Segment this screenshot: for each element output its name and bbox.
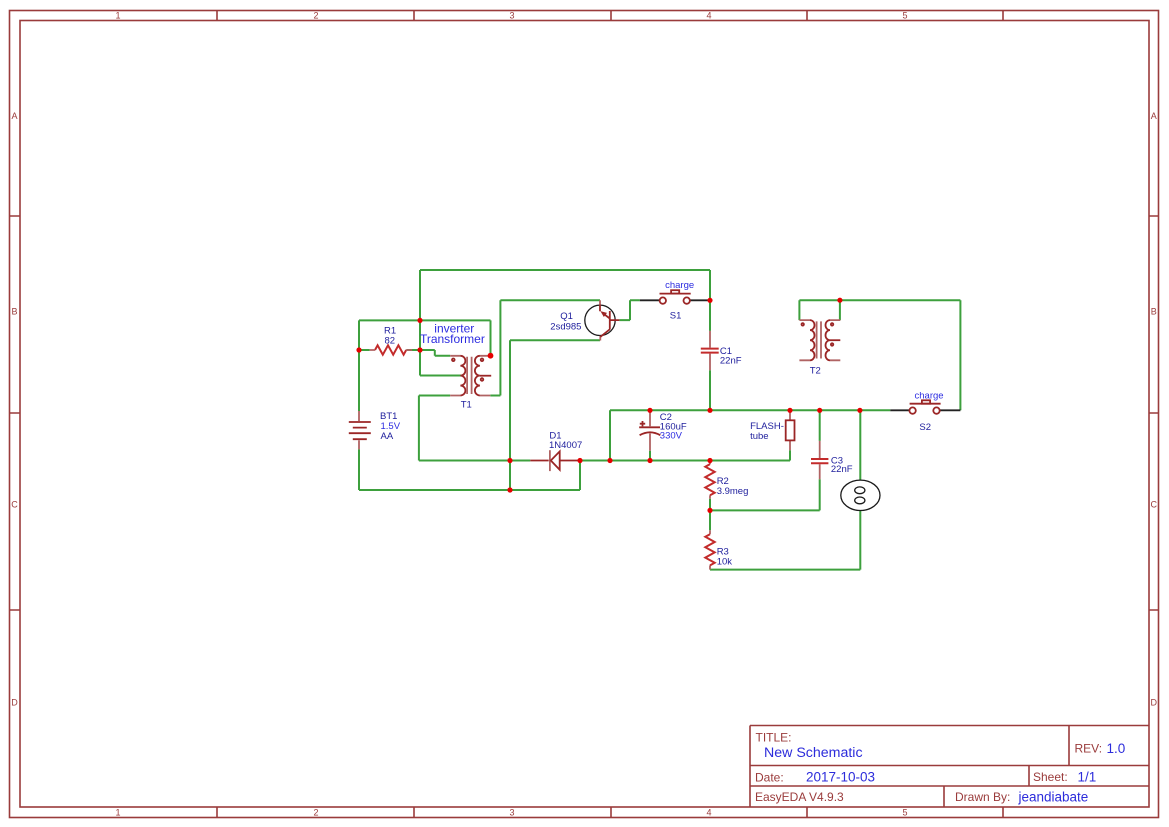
svg-text:1: 1 <box>115 807 120 817</box>
svg-text:3.9meg: 3.9meg <box>717 486 749 497</box>
svg-text:D: D <box>11 698 18 708</box>
svg-text:jeandiabate: jeandiabate <box>1018 789 1089 804</box>
svg-text:TITLE:: TITLE: <box>756 731 792 745</box>
svg-text:5: 5 <box>902 807 907 817</box>
svg-text:1/1: 1/1 <box>1078 770 1097 785</box>
svg-text:330V: 330V <box>660 431 683 442</box>
svg-text:New Schematic: New Schematic <box>764 745 863 761</box>
svg-text:1N4007: 1N4007 <box>549 440 582 451</box>
svg-text:4: 4 <box>706 11 711 21</box>
svg-text:T2: T2 <box>810 365 821 376</box>
svg-text:Transformer: Transformer <box>420 332 485 346</box>
svg-text:82: 82 <box>385 336 396 347</box>
svg-text:EasyEDA V4.9.3: EasyEDA V4.9.3 <box>755 790 844 804</box>
svg-text:C: C <box>1151 500 1158 510</box>
svg-text:Q1: Q1 <box>560 311 573 322</box>
svg-text:3: 3 <box>509 11 514 21</box>
svg-text:C: C <box>11 500 18 510</box>
svg-text:2: 2 <box>313 807 318 817</box>
svg-text:22nF: 22nF <box>720 356 742 367</box>
svg-text:S1: S1 <box>670 310 682 321</box>
svg-text:Date:: Date: <box>755 770 784 784</box>
svg-text:2sd985: 2sd985 <box>550 322 581 333</box>
svg-text:1: 1 <box>115 11 120 21</box>
svg-text:1.0: 1.0 <box>1107 741 1126 756</box>
svg-text:Drawn By:: Drawn By: <box>955 790 1010 804</box>
svg-text:10k: 10k <box>717 557 733 568</box>
svg-text:tube: tube <box>750 431 769 442</box>
svg-text:22nF: 22nF <box>831 464 853 475</box>
svg-text:A: A <box>1151 111 1157 121</box>
svg-text:B: B <box>11 307 17 317</box>
svg-text:4: 4 <box>706 807 711 817</box>
svg-text:Sheet:: Sheet: <box>1033 770 1068 784</box>
svg-text:charge: charge <box>665 280 694 291</box>
svg-text:2017-10-03: 2017-10-03 <box>806 770 875 785</box>
svg-text:2: 2 <box>313 11 318 21</box>
svg-text:B: B <box>1151 307 1157 317</box>
svg-text:REV:: REV: <box>1075 742 1103 756</box>
svg-text:5: 5 <box>902 11 907 21</box>
svg-text:3: 3 <box>509 807 514 817</box>
svg-text:AA: AA <box>381 431 394 442</box>
svg-text:1.5V: 1.5V <box>381 421 401 432</box>
svg-text:A: A <box>11 111 17 121</box>
svg-text:S2: S2 <box>919 422 931 433</box>
svg-text:D: D <box>1151 698 1158 708</box>
svg-text:charge: charge <box>915 390 944 401</box>
svg-text:T1: T1 <box>461 400 472 411</box>
